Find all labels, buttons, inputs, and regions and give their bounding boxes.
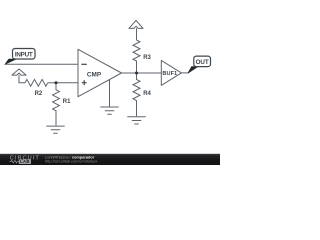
wire node A to CMP non-inverting input bbox=[56, 82, 78, 84]
footer bar bbox=[0, 154, 220, 165]
svg-text:OUT: OUT bbox=[196, 59, 209, 66]
CMP inverting input marker bbox=[81, 63, 86, 65]
buffer BUF1 bbox=[161, 60, 181, 85]
wire R2 to node A bbox=[48, 82, 56, 84]
ground under CMP bbox=[100, 107, 118, 114]
OUT net label bubble bbox=[194, 56, 211, 67]
svg-text:R3: R3 bbox=[143, 55, 151, 61]
INPUT net label bubble bbox=[13, 49, 36, 60]
svg-text:R4: R4 bbox=[143, 91, 151, 97]
wire node B to BUF1 input bbox=[137, 72, 162, 74]
svg-text:R1: R1 bbox=[63, 99, 71, 105]
ground under R4 bbox=[127, 117, 145, 124]
svg-text:CMP: CMP bbox=[87, 71, 102, 78]
svg-text:LAB: LAB bbox=[20, 159, 30, 164]
svg-text:INPUT: INPUT bbox=[15, 52, 33, 59]
footer logo resistor squiggle bbox=[10, 160, 19, 163]
wire BUF1 output bbox=[181, 72, 188, 74]
footer logo LAB box bbox=[19, 159, 31, 164]
resistor R1 bbox=[53, 83, 60, 126]
node B junction dot bbox=[135, 72, 138, 75]
terminal arrow (input port) bbox=[12, 69, 26, 75]
ground under R1 bbox=[46, 126, 64, 133]
svg-text:BUF1: BUF1 bbox=[162, 71, 177, 77]
wire INPUT net to CMP inverting input bbox=[5, 63, 78, 65]
power terminal VCC arrow bbox=[129, 21, 143, 29]
wire terminal stem bbox=[19, 75, 25, 83]
svg-text:R2: R2 bbox=[35, 91, 43, 97]
OUT net flag tail bbox=[188, 67, 198, 74]
CMP power pin wire bbox=[109, 80, 111, 107]
resistor R4 bbox=[133, 73, 140, 116]
wire CMP output to node B bbox=[122, 72, 137, 74]
svg-text:http://circuitlab.com/c/nnbdqv: http://circuitlab.com/c/nnbdqvx bbox=[45, 159, 97, 164]
node A junction dot bbox=[55, 81, 58, 84]
INPUT net flag tail bbox=[5, 59, 17, 64]
resistor R2 bbox=[25, 79, 48, 86]
wire VCC to R3 bbox=[136, 28, 138, 40]
CMP non-inverting input marker bbox=[82, 80, 87, 85]
op-amp comparator CMP bbox=[78, 49, 122, 96]
resistor R3 bbox=[133, 40, 140, 73]
